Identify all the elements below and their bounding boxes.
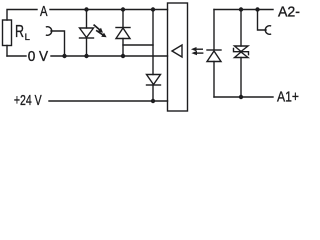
- amplifier box U1: [168, 3, 188, 111]
- TVS Z1 middle bar with zener hooks: [234, 49, 249, 55]
- wire: right top rail: [214, 9, 273, 11]
- LED D1 emission arrow 2: [97, 31, 103, 35]
- diode D3 cathode bar: [147, 84, 161, 86]
- wire: tee from D2 branch to diode D3 branch: [123, 44, 153, 46]
- TVS Z1 bottom triangle (pointing up): [235, 52, 249, 58]
- wire: 0V line main segment: [51, 55, 168, 57]
- diode D2 cathode bar: [116, 27, 130, 29]
- LED D1 branch wire top: [86, 10, 88, 29]
- svg-text:A1+: A1+: [277, 90, 299, 106]
- optocoupler LED triangle (pointing up): [207, 51, 221, 62]
- amplifier triangle (pointing left): [172, 45, 182, 57]
- optocoupler LED wire bottom: [213, 62, 215, 98]
- connector arc (plug symbol, left): [47, 27, 52, 36]
- node: 0V / LED branch: [84, 54, 88, 58]
- node: A-line / LED branch: [84, 7, 88, 11]
- diode D3 triangle (pointing down): [147, 75, 161, 85]
- diode D2 wire bottom: [122, 39, 124, 57]
- wire: resistor bottom to 0V line: [6, 46, 8, 57]
- node: right rail / TVS: [239, 7, 243, 11]
- wire: +24V line: [49, 100, 168, 102]
- wire: A-line main segment: [50, 9, 168, 11]
- diode D3 wire bottom: [152, 85, 154, 101]
- resistor R_L: [3, 20, 12, 46]
- wire: 0V line left segment: [7, 55, 26, 57]
- node: right rail / A2 stub: [255, 7, 259, 11]
- svg-text:+24 V: +24 V: [14, 93, 42, 109]
- optocoupler LED wire top: [213, 10, 215, 51]
- TVS Z1 wire bottom: [240, 58, 242, 98]
- diode D2 triangle (pointing up): [116, 28, 130, 39]
- LED D1 cathode bar: [80, 37, 94, 39]
- node: 0V / D2 branch: [121, 54, 125, 58]
- wire: A-line left segment with corner down to resistor: [7, 10, 37, 21]
- LED D1 branch wire bottom: [86, 38, 88, 56]
- wire: right bottom rail: [214, 96, 273, 98]
- svg-text:0 V: 0 V: [28, 49, 49, 65]
- node: A-line / D2 branch: [121, 7, 125, 11]
- TVS Z1 wire top: [240, 10, 242, 47]
- LED D1 emission arrow 1: [94, 25, 99, 29]
- node: +24V / D3 branch: [151, 99, 155, 103]
- wire: from arc to 0V line: [51, 31, 65, 56]
- LED D1 triangle: [80, 28, 94, 38]
- connector arc (plug symbol, right): [265, 26, 270, 35]
- diode D2 (anti-parallel) wire top: [122, 10, 124, 28]
- svg-text:L: L: [25, 32, 30, 43]
- optocoupler light arrow 2 (pointing left): [197, 52, 203, 54]
- A2- stub wire: [258, 10, 267, 31]
- junction dots: [62, 7, 259, 103]
- svg-text:R: R: [15, 21, 24, 41]
- node: bottom rail / TVS: [239, 95, 243, 99]
- optocoupler light arrow 1 (pointing left): [197, 48, 203, 50]
- node: A-line / D3 branch: [151, 7, 155, 11]
- optocoupler LED cathode bar: [207, 49, 221, 51]
- svg-text:A: A: [40, 4, 48, 20]
- node: 0V / arc wire: [62, 54, 66, 58]
- diode D3 (free-wheeling) wire top: [152, 10, 154, 75]
- TVS Z1 top triangle (pointing down): [235, 46, 249, 52]
- svg-text:A2-: A2-: [278, 5, 300, 21]
